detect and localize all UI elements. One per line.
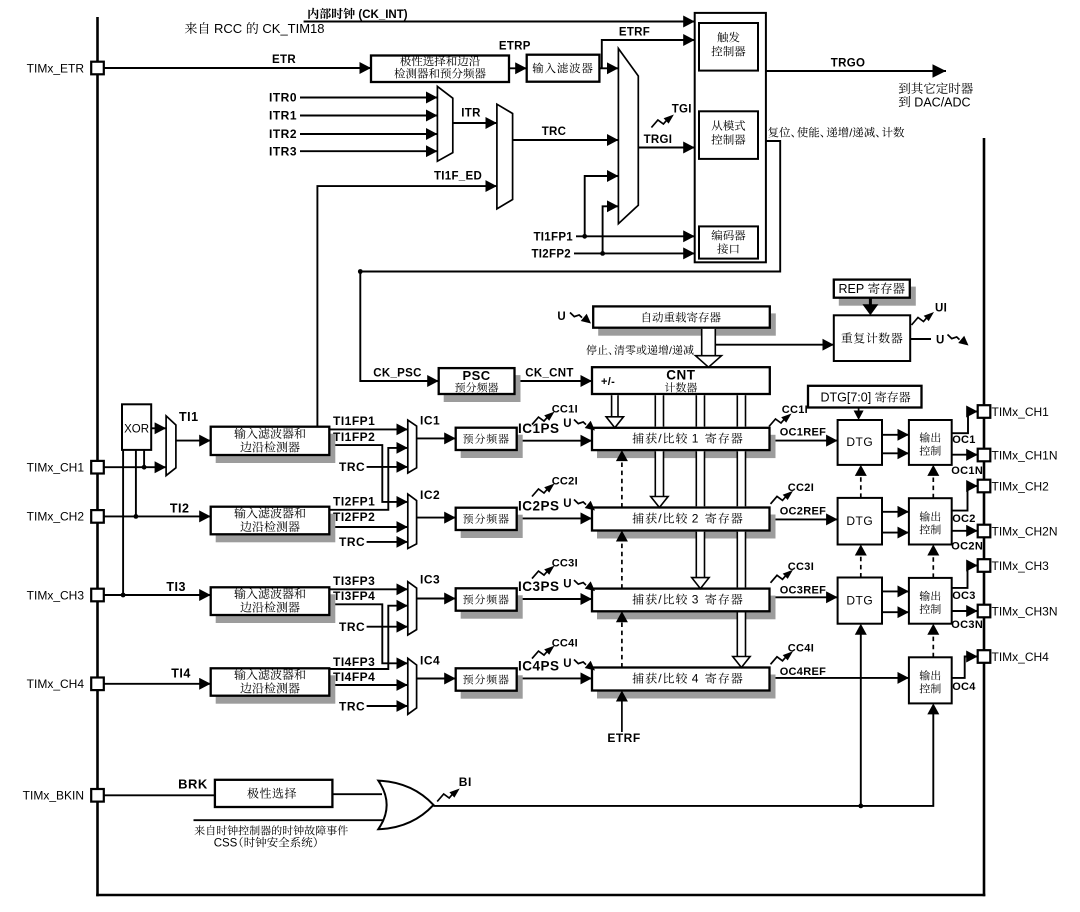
- label TI1FP2: [333, 430, 375, 444]
- block input filter ETRP: [527, 55, 600, 82]
- hollow arrow CNT to capture 4: [733, 657, 750, 668]
- label OC2: [952, 513, 976, 525]
- wire XOR input from CH2: [135, 450, 137, 517]
- wire TI4FP3 up to IC3 mux: [329, 606, 408, 669]
- block capture compare register 2: [592, 508, 776, 539]
- junction dot BI to DTG riser: [858, 804, 863, 809]
- block DTG channel 1: [838, 420, 882, 465]
- label CC4I left: [552, 638, 578, 650]
- svg-text:TI3FP3: TI3FP3: [333, 574, 375, 588]
- junction dot TI1FP1: [582, 234, 587, 239]
- hollow arrow CNT to capture 3: [692, 578, 709, 589]
- svg-text:OC2: OC2: [952, 513, 976, 525]
- svg-text:TIMx_CH4: TIMx_CH4: [992, 650, 1050, 664]
- svg-text:OC3: OC3: [952, 590, 976, 602]
- wire TI2FP2 to encoder: [574, 252, 695, 254]
- svg-text:DTG: DTG: [846, 514, 873, 528]
- label TI4FP3: [333, 655, 375, 669]
- svg-text:TIMx_CH2N: TIMx_CH2N: [992, 525, 1058, 539]
- svg-text:IC4PS: IC4PS: [518, 659, 560, 674]
- label TRGO: [831, 58, 865, 70]
- pad TIMx_ETR: [91, 62, 104, 75]
- label IC1PS: [518, 421, 560, 436]
- wire OC3 to pad: [952, 566, 978, 588]
- mux TI1 select: [166, 416, 176, 476]
- label TIMx_CH3N right: [992, 605, 1058, 619]
- label ITR3: [269, 144, 297, 158]
- label IC3: [420, 572, 440, 586]
- svg-text:XOR: XOR: [124, 423, 149, 435]
- svg-text:TIMx_BKIN: TIMx_BKIN: [23, 789, 84, 803]
- label ITR: [461, 108, 481, 120]
- label U capture 1: [563, 418, 572, 430]
- block slave mode controller: [699, 111, 758, 159]
- frame right border: [983, 138, 986, 896]
- junction dot CH3 XOR: [121, 593, 126, 598]
- label TI2FP2 encoder: [531, 249, 571, 261]
- label CC2I left: [552, 476, 578, 488]
- squiggle U capture 2: [574, 500, 595, 511]
- svg-text:ETRF: ETRF: [619, 27, 650, 39]
- label TRC channel 2: [339, 535, 365, 549]
- label OC1N: [951, 465, 983, 477]
- label U capture 2: [563, 498, 572, 510]
- svg-text:TI4FP3: TI4FP3: [333, 655, 375, 669]
- svg-text:TRC: TRC: [339, 699, 365, 713]
- svg-text:TRGI: TRGI: [644, 134, 673, 146]
- arrow DTG register to DTG1: [854, 408, 864, 421]
- label CC3I left: [552, 558, 578, 570]
- wire XOR input from CH1: [143, 450, 145, 467]
- svg-text:CC2I: CC2I: [552, 476, 578, 488]
- block DTG channel 2: [838, 498, 882, 545]
- svg-text:TIMx_CH1: TIMx_CH1: [992, 405, 1050, 419]
- label TIMx_CH3 left: [27, 588, 85, 602]
- label TRC channel 1: [339, 460, 365, 474]
- svg-text:RCC: RCC: [214, 21, 242, 36]
- squiggle CC3I left: [532, 566, 555, 579]
- label TRC channel 3: [339, 620, 365, 634]
- svg-text:TI4FP4: TI4FP4: [333, 670, 375, 684]
- label TIMx_CH2 left: [27, 510, 85, 524]
- svg-text:ITR2: ITR2: [269, 127, 297, 141]
- svg-text:IC1PS: IC1PS: [518, 421, 560, 436]
- svg-text:CC3I: CC3I: [552, 558, 578, 570]
- junction dot CH1 XOR: [142, 465, 147, 470]
- label OC3N: [951, 619, 983, 631]
- label IC2: [420, 488, 440, 502]
- block auto-reload register: [593, 306, 776, 335]
- wire DTG2 output 1: [882, 511, 909, 513]
- wire riser BI to DTG3: [860, 629, 862, 806]
- squiggle TGI: [651, 115, 674, 128]
- svg-text:TI2FP2: TI2FP2: [333, 510, 375, 524]
- svg-text:TIMx_CH2: TIMx_CH2: [27, 510, 85, 524]
- block encoder interface: [699, 226, 758, 258]
- wire ITR: [453, 122, 497, 124]
- wire slave mode controller to prescaler clock: [360, 141, 780, 381]
- svg-text:IC3: IC3: [420, 572, 440, 586]
- wire IC2PS: [517, 517, 592, 519]
- wire IC1PS: [517, 440, 592, 442]
- label CC3I right: [788, 561, 814, 573]
- block XOR: [122, 404, 151, 450]
- svg-text:CSS: CSS: [214, 838, 238, 850]
- label TI1FP1 encoder: [533, 232, 573, 244]
- svg-text:CK_TIM18: CK_TIM18: [262, 21, 324, 36]
- label TIMx_CH4 right: [992, 650, 1050, 664]
- wire TI1F_ED: [317, 186, 497, 427]
- dashed arrow OC2 to OC1 control: [927, 465, 939, 498]
- svg-text:TI1FP1: TI1FP1: [333, 414, 375, 428]
- svg-text:U: U: [563, 418, 572, 430]
- block prescaler channel 1: [456, 428, 523, 458]
- wire ITR1: [300, 115, 437, 117]
- mux IC2 select: [408, 494, 417, 548]
- block trigger controller: [699, 23, 758, 71]
- label ETR: [272, 54, 296, 66]
- label TI2: [170, 501, 190, 515]
- svg-text:CC4I: CC4I: [552, 638, 578, 650]
- wire IC3PS: [517, 598, 592, 600]
- svg-text:TIMx_CH4: TIMx_CH4: [27, 677, 85, 691]
- squiggle CC4I left: [532, 646, 555, 659]
- block input filter and edge detector channel 1: [211, 427, 336, 463]
- wire XOR output: [151, 427, 166, 429]
- svg-text:REP: REP: [839, 282, 865, 296]
- svg-text:TIMx_CH3N: TIMx_CH3N: [992, 605, 1058, 619]
- bus CNT to capture 2: [655, 395, 663, 497]
- label ITR2: [269, 127, 297, 141]
- label U repetition: [936, 334, 945, 346]
- wire IC4: [417, 678, 456, 680]
- svg-text:ITR0: ITR0: [269, 91, 297, 105]
- bus CNT to capture 1: [612, 395, 618, 417]
- dashed arrow capture 3 to 2: [616, 531, 628, 589]
- dashed arrow capture 4 to 3: [616, 611, 628, 667]
- mux ITR select: [437, 86, 452, 161]
- label CSS clock security system: [214, 837, 317, 850]
- svg-text:TI3: TI3: [166, 580, 186, 594]
- dashed arrow DTG2 to DTG1: [855, 465, 867, 498]
- block PSC prescaler: [439, 368, 521, 402]
- block prescaler channel 2: [456, 508, 523, 538]
- svg-text:CNT: CNT: [666, 367, 695, 382]
- label TI1FP1: [333, 414, 375, 428]
- label TRC slave: [542, 126, 567, 138]
- squiggle BI: [437, 789, 460, 802]
- svg-text:U: U: [563, 498, 572, 510]
- wire TI3FP4 down to IC4 mux: [329, 604, 408, 663]
- wire ITR0: [300, 97, 437, 99]
- svg-text:OC1N: OC1N: [951, 465, 983, 477]
- label TI2FP2: [333, 510, 375, 524]
- wire IC2: [417, 517, 456, 519]
- pad TIMx_CH3N right: [978, 605, 991, 618]
- label CC2I right: [788, 482, 814, 494]
- wire IC4PS: [517, 677, 592, 679]
- wire DTG3 output 2: [882, 611, 909, 613]
- svg-text:BI: BI: [459, 775, 472, 789]
- hollow arrow CNT to capture 2: [651, 497, 668, 508]
- bus CNT to capture 4: [737, 395, 745, 657]
- svg-text:IC4: IC4: [420, 653, 440, 667]
- wire U output of repetition counter: [910, 338, 931, 340]
- label TI4FP4: [333, 670, 375, 684]
- mux IC4 select: [408, 658, 417, 714]
- wire TIMx_CH2 input TI2: [104, 515, 211, 517]
- hollow arrow auto-reload to CNT: [696, 356, 722, 368]
- svg-text:ITR1: ITR1: [269, 109, 297, 123]
- squiggle U auto-reload: [570, 313, 591, 324]
- svg-text:TIMx_ETR: TIMx_ETR: [27, 61, 85, 75]
- OR gate brake: [378, 781, 433, 830]
- label IC4: [420, 653, 440, 667]
- wire OC3N to pad: [952, 610, 978, 612]
- wire OC1 to pad: [952, 412, 978, 434]
- label TRC channel 4: [339, 699, 365, 713]
- label TI2FP1: [333, 495, 375, 509]
- wire filter to trigger mux: [599, 67, 618, 69]
- svg-text:TIMx_CH1N: TIMx_CH1N: [992, 449, 1058, 463]
- svg-text:PSC: PSC: [462, 368, 490, 383]
- svg-text:DAC/ADC: DAC/ADC: [914, 95, 970, 109]
- label reset enable up down count: [768, 127, 904, 140]
- wire TIMx_CH1 input: [104, 466, 166, 468]
- pad TIMx_CH3 left: [91, 589, 104, 602]
- label stop clear updown: [586, 345, 693, 357]
- squiggle U capture 4: [574, 660, 595, 671]
- svg-text:CC1I: CC1I: [552, 404, 578, 416]
- svg-text:TIMx_CH2: TIMx_CH2: [992, 480, 1050, 494]
- wire BRK polarity to OR gate: [332, 793, 382, 795]
- svg-text:TI2FP1: TI2FP1: [333, 495, 375, 509]
- svg-text:UI: UI: [935, 303, 947, 315]
- label from RCC CK_TIM18: [185, 21, 325, 36]
- block input filter and edge detector channel 2: [211, 507, 336, 543]
- arrow ETRF to capture 4: [616, 691, 628, 733]
- block prescaler channel 4: [456, 668, 523, 698]
- wire TI1FP1 to encoder: [576, 235, 695, 237]
- label OC3: [952, 590, 976, 602]
- wire ITR3: [300, 150, 437, 152]
- svg-text:CK_PSC: CK_PSC: [373, 368, 421, 380]
- pad TIMx_CH2N right: [978, 525, 991, 538]
- wire TI1FP1 branch to trigger mux: [585, 176, 619, 236]
- block DTG channel 3: [838, 578, 882, 624]
- wire update branch to repetition counter: [715, 344, 834, 346]
- label OC1: [952, 434, 976, 446]
- svg-text:OC3REF: OC3REF: [780, 584, 826, 596]
- block DTG register: [808, 386, 922, 408]
- label CC1I right: [782, 404, 808, 416]
- squiggle CC4I right: [771, 651, 794, 664]
- wire TIMx_CH3 input TI3: [104, 594, 211, 596]
- label clock failure event: [195, 825, 348, 835]
- svg-text:IC2: IC2: [420, 488, 440, 502]
- pad TIMx_CH1N right: [978, 449, 991, 462]
- svg-text:TI2FP2: TI2FP2: [531, 249, 571, 261]
- wire OC2REF: [770, 518, 838, 520]
- mux IC1 select: [408, 420, 417, 473]
- svg-text:U: U: [563, 658, 572, 670]
- svg-text:TRC: TRC: [339, 620, 365, 634]
- wire TI1 mux output: [176, 440, 211, 442]
- label ITR1: [269, 109, 297, 123]
- block output control channel 1: [909, 420, 952, 465]
- wire OC4REF: [770, 677, 909, 679]
- wire ETRP: [509, 67, 527, 69]
- squiggle U repetition: [948, 335, 969, 346]
- label TRGI: [644, 134, 673, 146]
- label CK_PSC: [373, 368, 421, 380]
- block REP register: [834, 280, 916, 306]
- wire XOR input from CH3: [122, 450, 124, 595]
- svg-text:OC1: OC1: [952, 434, 976, 446]
- wire TI3FP3: [329, 588, 408, 590]
- label TIMx_CH1 right: [992, 405, 1050, 419]
- pad TIMx_CH2 right: [978, 480, 991, 493]
- label TI1F_ED: [434, 170, 482, 182]
- squiggle CC2I left: [532, 484, 555, 497]
- label BRK: [178, 776, 208, 791]
- label to DAC ADC: [899, 95, 971, 109]
- dashed arrow OC4 to OC3 control: [927, 624, 939, 658]
- dashed arrow DTG3 to DTG2: [855, 545, 867, 578]
- svg-text:U: U: [557, 311, 566, 323]
- block output control channel 2: [909, 498, 952, 544]
- svg-text:DTG[7:0]: DTG[7:0]: [821, 391, 872, 405]
- svg-text:IC3PS: IC3PS: [518, 579, 560, 594]
- pad TIMx_CH3 right: [978, 559, 991, 572]
- svg-text:OC1REF: OC1REF: [780, 427, 826, 439]
- svg-text:+/-: +/-: [601, 376, 615, 388]
- wire TI2FP1 up to IC1 mux: [329, 448, 408, 510]
- wire DTG2 output 2: [882, 532, 909, 534]
- svg-text:TIMx_CH1: TIMx_CH1: [27, 461, 85, 475]
- label IC2PS: [518, 498, 560, 513]
- wire OC4 to pad: [952, 657, 978, 678]
- svg-text:TRC: TRC: [339, 460, 365, 474]
- label CK_CNT: [525, 368, 573, 380]
- wire DTG3 output 1: [882, 590, 909, 592]
- squiggle U capture 3: [574, 580, 595, 591]
- block BRK polarity selection: [215, 780, 333, 807]
- block capture compare register 3: [592, 589, 776, 620]
- wire TI2FP2 branch to trigger mux: [603, 206, 619, 253]
- svg-text:TI3FP4: TI3FP4: [333, 589, 375, 603]
- svg-text:U: U: [936, 334, 945, 346]
- arrow REP to repetition counter: [862, 298, 878, 316]
- label ETRF bottom: [607, 731, 640, 745]
- block polarity selection edge detector prescaler: [371, 56, 509, 83]
- label OC4REF: [780, 666, 826, 678]
- svg-text:TRC: TRC: [339, 535, 365, 549]
- wire OC1N to pad: [952, 454, 978, 456]
- svg-text:TI1FP1: TI1FP1: [533, 232, 573, 244]
- squiggle CC3I right: [771, 570, 794, 583]
- wire OC2N to pad: [952, 530, 978, 532]
- svg-text:OC4REF: OC4REF: [780, 666, 826, 678]
- svg-text:TRC: TRC: [542, 126, 567, 138]
- mux IC3 select: [408, 582, 417, 635]
- label TI4: [171, 666, 191, 680]
- wire DTG1 output 2: [882, 452, 909, 454]
- svg-text:4: 4: [692, 672, 699, 686]
- dashed arrow capture 2 to 1: [616, 450, 628, 507]
- label TIMx_CH4 left: [27, 677, 85, 691]
- squiggle U capture 1: [574, 420, 595, 431]
- arrowhead BI riser to DTG3: [855, 624, 867, 635]
- wire DTG1 output 1: [882, 434, 909, 436]
- wire TIMx_BKIN input BRK: [104, 794, 215, 796]
- wire CSS clock failure input: [194, 819, 385, 821]
- block controller outer: [695, 13, 766, 262]
- bus CNT to capture 3: [696, 395, 704, 578]
- svg-text:OC3N: OC3N: [951, 619, 983, 631]
- pad TIMx_CH4 left: [91, 678, 104, 691]
- squiggle CC1I right: [769, 414, 792, 427]
- block capture compare register 4: [592, 668, 776, 699]
- label ETRF top: [619, 27, 650, 39]
- svg-text:ITR3: ITR3: [269, 144, 297, 158]
- svg-text:BRK: BRK: [178, 776, 208, 791]
- frame bottom border: [96, 894, 985, 897]
- wire ETR: [104, 67, 371, 69]
- wire OC2 to pad: [952, 486, 978, 511]
- svg-text:OC2N: OC2N: [951, 540, 983, 552]
- label U capture 3: [563, 579, 572, 591]
- wire ETRF: [602, 40, 695, 68]
- svg-text:(CK_INT): (CK_INT): [358, 9, 407, 21]
- svg-text:ETRF: ETRF: [607, 731, 640, 745]
- label U capture 4: [563, 658, 572, 670]
- block input filter and edge detector channel 3: [211, 587, 336, 623]
- label U auto-reload: [557, 311, 566, 323]
- label TIMx_CH2N right: [992, 525, 1058, 539]
- pad TIMx_BKIN: [91, 789, 104, 802]
- block input filter and edge detector channel 4: [211, 668, 336, 703]
- svg-text:TI1F_ED: TI1F_ED: [434, 170, 482, 182]
- bus auto-reload to CNT: [702, 329, 716, 356]
- label ITR0: [269, 91, 297, 105]
- label OC2REF: [780, 505, 826, 517]
- svg-text:2: 2: [692, 512, 699, 526]
- label OC1REF: [780, 427, 826, 439]
- svg-text:DTG: DTG: [846, 435, 873, 449]
- pad TIMx_CH1 right: [978, 405, 991, 418]
- block prescaler channel 3: [456, 588, 523, 618]
- svg-text:TGI: TGI: [672, 104, 692, 116]
- wire TRC stub channel 4: [367, 705, 408, 707]
- label TIMx_CH1 left: [27, 461, 85, 475]
- pad TIMx_CH2 left: [91, 510, 104, 523]
- block capture compare register 1: [592, 428, 776, 458]
- pad TIMx_CH4 right: [978, 650, 991, 663]
- svg-text:1: 1: [692, 432, 699, 446]
- dashed arrow OC3 to OC2 control: [927, 545, 939, 578]
- svg-text:TI1: TI1: [179, 410, 199, 424]
- label IC3PS: [518, 579, 560, 594]
- mux slave trigger input select: [497, 104, 513, 209]
- label TI3: [166, 580, 186, 594]
- label UI: [935, 303, 947, 315]
- svg-text:/: /: [669, 345, 672, 357]
- svg-text:ETR: ETR: [272, 54, 296, 66]
- wire TRGI: [638, 147, 694, 149]
- label TI3FP3: [333, 574, 375, 588]
- svg-text:TIMx_CH3: TIMx_CH3: [992, 559, 1050, 573]
